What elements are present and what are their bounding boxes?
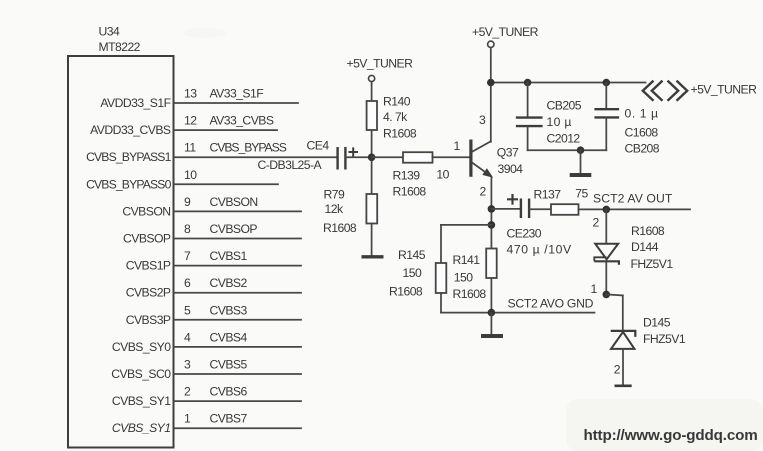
svg-text:CVBS_SC0: CVBS_SC0 — [111, 367, 171, 381]
svg-text:CVBSON: CVBSON — [122, 204, 170, 218]
svg-text:8: 8 — [184, 222, 191, 236]
svg-text:SCT2 AVO GND: SCT2 AVO GND — [508, 297, 594, 311]
svg-text:CVBS3: CVBS3 — [210, 303, 248, 317]
svg-text:+5V_TUNER: +5V_TUNER — [691, 83, 758, 97]
svg-text:3: 3 — [479, 113, 486, 127]
svg-text:AVDD33_CVBS: AVDD33_CVBS — [90, 123, 171, 137]
svg-text:CVBS_SY1: CVBS_SY1 — [112, 394, 171, 408]
svg-text:CVBS3P: CVBS3P — [126, 313, 171, 327]
svg-text:Q37: Q37 — [497, 146, 519, 160]
svg-text:10: 10 — [184, 168, 197, 182]
svg-text:R79: R79 — [324, 188, 345, 202]
svg-text:AV33_CVBS: AV33_CVBS — [210, 114, 274, 128]
svg-text:R1608: R1608 — [631, 224, 665, 238]
svg-text:D145: D145 — [643, 315, 671, 329]
svg-text:C1608: C1608 — [625, 125, 659, 139]
svg-text:75: 75 — [575, 187, 588, 201]
svg-text:R1608: R1608 — [389, 285, 423, 299]
svg-text:CE4: CE4 — [307, 138, 330, 152]
svg-text:CVBSOP: CVBSOP — [123, 232, 171, 246]
svg-text:MT8222: MT8222 — [99, 40, 141, 54]
svg-text:4: 4 — [184, 330, 191, 344]
svg-text:470 µ /10V: 470 µ /10V — [507, 243, 572, 257]
svg-text:5: 5 — [184, 303, 191, 317]
svg-text:U34: U34 — [99, 25, 120, 39]
svg-text:R1608: R1608 — [323, 221, 357, 235]
svg-text:http://www.go-gddq.com: http://www.go-gddq.com — [584, 427, 758, 444]
svg-text:CVBS_BYPASS0: CVBS_BYPASS0 — [86, 177, 171, 191]
svg-text:R1608: R1608 — [393, 185, 427, 199]
svg-text:CVBSON: CVBSON — [210, 195, 258, 209]
svg-text:12k: 12k — [325, 202, 344, 216]
svg-text:R1608: R1608 — [453, 287, 487, 301]
svg-text:D144: D144 — [631, 240, 659, 254]
svg-text:CVBS_BYPASS: CVBS_BYPASS — [210, 141, 287, 155]
svg-text:12: 12 — [184, 114, 197, 128]
svg-text:+5V_TUNER: +5V_TUNER — [347, 56, 414, 70]
svg-text:AV33_S1F: AV33_S1F — [210, 87, 264, 101]
svg-text:CVBSOP: CVBSOP — [210, 222, 258, 236]
svg-text:FHZ5V1: FHZ5V1 — [631, 257, 674, 271]
svg-text:R141: R141 — [453, 253, 481, 267]
svg-text:CVBS_SY0: CVBS_SY0 — [112, 340, 171, 354]
svg-text:CVBS2: CVBS2 — [210, 276, 248, 290]
svg-text:CVBS1P: CVBS1P — [126, 259, 171, 273]
svg-text:CVBS7: CVBS7 — [210, 412, 248, 426]
svg-text:1: 1 — [591, 282, 598, 296]
svg-text:2: 2 — [184, 385, 191, 399]
svg-text:150: 150 — [403, 266, 422, 280]
svg-text:CB205: CB205 — [547, 98, 582, 112]
svg-text:CVBS_BYPASS1: CVBS_BYPASS1 — [86, 150, 171, 164]
svg-text:0. 1 µ: 0. 1 µ — [625, 107, 659, 121]
svg-text:2: 2 — [614, 362, 621, 376]
svg-text:CE230: CE230 — [507, 226, 542, 240]
svg-text:R145: R145 — [398, 248, 426, 262]
svg-text:13: 13 — [184, 87, 197, 101]
svg-text:FHZ5V1: FHZ5V1 — [643, 332, 686, 346]
svg-text:2: 2 — [593, 215, 600, 229]
svg-text:10 µ: 10 µ — [547, 115, 572, 129]
svg-text:CVBS5: CVBS5 — [210, 358, 248, 372]
svg-text:CVBS2P: CVBS2P — [126, 286, 171, 300]
svg-text:2: 2 — [480, 184, 487, 198]
svg-text:CVBS_SY1: CVBS_SY1 — [112, 421, 171, 435]
svg-text:CVBS4: CVBS4 — [210, 330, 248, 344]
svg-text:11: 11 — [184, 141, 196, 155]
svg-text:1: 1 — [184, 412, 191, 426]
svg-text:CVBS6: CVBS6 — [210, 385, 248, 399]
svg-text:SCT2 AV OUT: SCT2 AV OUT — [593, 192, 673, 206]
svg-text:R140: R140 — [383, 94, 411, 108]
svg-text:10: 10 — [436, 168, 449, 182]
svg-text:C2012: C2012 — [547, 132, 581, 146]
svg-text:R1608: R1608 — [383, 127, 417, 141]
svg-text:9: 9 — [184, 195, 191, 209]
svg-text:CB208: CB208 — [625, 141, 660, 155]
svg-text:R137: R137 — [534, 187, 562, 201]
svg-text:CVBS1: CVBS1 — [210, 249, 248, 263]
svg-text:3: 3 — [184, 358, 191, 372]
svg-text:AVDD33_S1F: AVDD33_S1F — [100, 96, 170, 110]
svg-text:1: 1 — [454, 139, 461, 153]
svg-text:C-DB3L25-A: C-DB3L25-A — [258, 158, 323, 172]
svg-text:R139: R139 — [393, 169, 421, 183]
svg-text:3904: 3904 — [498, 162, 524, 176]
svg-text:7: 7 — [184, 249, 191, 263]
svg-text:6: 6 — [184, 276, 191, 290]
svg-text:4. 7k: 4. 7k — [383, 110, 408, 124]
svg-text:+5V_TUNER: +5V_TUNER — [472, 25, 539, 39]
svg-text:150: 150 — [454, 271, 473, 285]
